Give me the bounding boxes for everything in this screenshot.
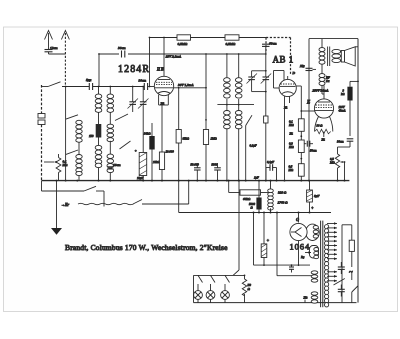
- smoothing electrolytic: [261, 213, 267, 267]
- anode top lead V1: [163, 38, 165, 73]
- wave-change switch S1b: [66, 150, 78, 155]
- svg-text:1284R: 1284R: [118, 64, 150, 75]
- resistor 50 Ohm barretter: [242, 275, 246, 303]
- svg-text:AB 1: AB 1: [273, 55, 294, 65]
- capacitor 50cm coupling: [304, 141, 313, 147]
- svg-text:50cm: 50cm: [310, 149, 317, 153]
- ground lead: [56, 181, 58, 228]
- svg-text:MΩ: MΩ: [288, 145, 294, 149]
- svg-text:Rk: Rk: [289, 132, 294, 136]
- shielded dashed lead to AB1 grid: [266, 38, 291, 76]
- link wire: [217, 104, 254, 106]
- electrolytic 10uF: [139, 153, 147, 181]
- capacitor 30cm (right): [347, 139, 354, 147]
- output box frame: [309, 39, 358, 303]
- mains tapped winding (right of core): [325, 225, 329, 307]
- wire riser x=99: [98, 54, 100, 87]
- svg-text:10.000: 10.000: [166, 150, 175, 154]
- svg-text:MΩ: MΩ: [288, 168, 294, 172]
- voltage taps with arrows: [327, 222, 337, 282]
- heater feed riser: [238, 181, 240, 270]
- HT winding bobbin loops: [313, 226, 318, 239]
- cathode bypass caps: [289, 264, 294, 272]
- HT feed to rectifier: [253, 213, 255, 266]
- IF coil L9: [224, 111, 231, 181]
- top HT bus: [150, 37, 267, 39]
- resistor 5000 Ohm (hatched): [256, 180, 261, 214]
- svg-text:5000: 5000: [212, 163, 219, 167]
- filament center line: [254, 264, 311, 266]
- svg-text:60cm: 60cm: [269, 42, 277, 46]
- svg-text:43mA: 43mA: [339, 109, 346, 113]
- svg-text:30cm: 30cm: [337, 140, 344, 144]
- antenna arrow A2 (dashed down-lead): [61, 31, 69, 87]
- tuning gang loop: [247, 71, 272, 92]
- capacitor 5uu: [89, 83, 92, 90]
- svg-text:250V 54mA: 250V 54mA: [313, 89, 330, 93]
- capacitor 12cm on antenna lead: [45, 50, 66, 55]
- svg-text:Rg: Rg: [300, 255, 305, 259]
- grid loop AB1: [274, 71, 285, 89]
- svg-text:Rk: Rk: [321, 138, 326, 142]
- svg-text:10μF: 10μF: [137, 176, 144, 180]
- svg-text:1μF: 1μF: [254, 176, 259, 180]
- resistor 0,3MOhm (divider mid): [298, 131, 304, 152]
- dial lamp rail bottom: [194, 302, 357, 304]
- svg-text:+: +: [311, 205, 314, 210]
- trimmer capacitor C-t2: [138, 87, 149, 153]
- IF coil L10: [235, 54, 242, 111]
- resistor 1kOhm small: [264, 110, 268, 181]
- svg-text:~: ~: [349, 269, 353, 277]
- svg-text:D: D: [292, 71, 296, 75]
- svg-text:30cm: 30cm: [139, 79, 147, 83]
- bus junction dots: [56, 180, 346, 182]
- resistor R 0,5MOhm (right): [225, 35, 239, 47]
- svg-text:5μμ: 5μμ: [86, 78, 92, 82]
- resistor 0,5MOhm (divider bottom): [298, 153, 304, 181]
- coil L7 (col C lower): [107, 154, 114, 181]
- wire L2 to bus: [78, 176, 80, 181]
- dial lamp rail top: [194, 274, 245, 276]
- mains switch a: [334, 279, 345, 286]
- rectifier tube 1064: [290, 213, 319, 267]
- tube E (output pentode): [314, 85, 333, 118]
- wire riser to wave switch: [65, 87, 67, 181]
- heater return riser: [178, 181, 180, 213]
- resistor (hatched) in col B: [96, 124, 102, 138]
- dial lamp La1: [194, 275, 203, 302]
- svg-text:Dr.: Dr.: [325, 79, 330, 83]
- pins AB1: [285, 96, 290, 106]
- antenna coil L2: [76, 155, 82, 159]
- svg-text:30 Ω: 30 Ω: [317, 124, 324, 128]
- output transformer T1: [319, 39, 341, 66]
- svg-text:1740 Ω: 1740 Ω: [278, 201, 289, 205]
- junction dots grid line: [98, 37, 240, 55]
- tuned coil L5 (col C): [107, 87, 114, 125]
- capacitor 25u: [306, 68, 317, 70]
- aerial socket connector: [38, 114, 45, 125]
- loudspeaker: [340, 47, 358, 66]
- main earth bus: [42, 180, 350, 182]
- trimmer capacitor C-t1: [128, 87, 139, 113]
- ground symbol: [51, 228, 62, 235]
- svg-text:10cm: 10cm: [113, 163, 121, 167]
- svg-text:60kΩ: 60kΩ: [243, 197, 251, 201]
- wire L1-L2: [78, 142, 80, 154]
- cathode network V1 riser: [159, 105, 169, 181]
- anode lead AB1 to divider: [296, 86, 301, 119]
- capacitor 30cm grid of V1: [144, 83, 147, 90]
- wire AVC riser x=149.5: [149, 38, 151, 84]
- svg-text:E: E: [306, 101, 310, 106]
- heater riser right: [277, 213, 312, 276]
- speaker field coil NF Dr: [319, 64, 325, 94]
- svg-text:85kΩ: 85kΩ: [183, 137, 190, 141]
- tuned coil L3 (col B): [95, 87, 102, 125]
- svg-text:→Er: →Er: [61, 202, 69, 207]
- IF coil L8: [224, 54, 231, 111]
- coil L4 (col B lower): [95, 138, 102, 181]
- svg-text:H N: H N: [156, 67, 164, 72]
- mains switch b: [352, 286, 358, 292]
- svg-text:Rk: Rk: [283, 106, 288, 110]
- svg-text:30cm: 30cm: [118, 46, 126, 50]
- mains dropper winding 320/1740: [268, 180, 274, 214]
- svg-text:1MΩ: 1MΩ: [211, 137, 218, 141]
- primary mains winding lower: [311, 292, 318, 303]
- svg-text:Hz: Hz: [303, 296, 309, 300]
- heater winding 4V: [311, 271, 318, 282]
- potentiometer 0,1MOhm (zigzag): [44, 154, 61, 181]
- svg-text:320 Ω: 320 Ω: [278, 191, 287, 195]
- mains-aerial switch line: [42, 181, 105, 207]
- svg-text:150: 150: [89, 134, 94, 138]
- left chassis border (dashed): [41, 85, 43, 181]
- svg-text:10kΩ: 10kΩ: [153, 160, 160, 164]
- grid bus wire y=54: [99, 53, 266, 55]
- resistor 1MOhm: [203, 54, 208, 181]
- switch antenna: [48, 82, 61, 87]
- grid wire to tube E: [301, 110, 314, 112]
- svg-text:1064: 1064: [290, 242, 311, 252]
- capacitor 0,1uF: [266, 164, 277, 180]
- svg-text:Brandt, Columbus 170 W., Wechs: Brandt, Columbus 170 W., Wechselstrom, 2…: [65, 243, 228, 252]
- svg-text:MΩ: MΩ: [288, 123, 294, 127]
- wave-change switch S1a: [66, 115, 78, 119]
- antenna arrow A1: [45, 31, 53, 50]
- tube V1 1284R: [154, 72, 173, 96]
- electrolytic 8uF: [307, 181, 313, 213]
- resistor R 0,5MOhm (left): [177, 35, 191, 47]
- IF coil L11: [235, 111, 242, 181]
- svg-text:50.000: 50.000: [191, 163, 200, 167]
- filament winding bobbin: [310, 246, 319, 259]
- arrow to transformer: [305, 251, 311, 253]
- coil L6 (col C mid): [107, 124, 114, 154]
- switch Er: [133, 200, 142, 205]
- switch S2: [115, 114, 128, 121]
- svg-text:+: +: [267, 238, 270, 243]
- svg-text:30kΩ: 30kΩ: [144, 132, 151, 136]
- cathode pins V1: [159, 95, 169, 105]
- capacitor 50cm in grid bus: [119, 50, 128, 58]
- switch S3: [120, 141, 131, 149]
- cathode return AB1: [284, 109, 286, 181]
- svg-text:MΩ: MΩ: [329, 161, 335, 165]
- svg-text:8μF: 8μF: [314, 194, 320, 198]
- capacitor 60cm: [262, 44, 270, 54]
- dial lamp La2: [206, 275, 215, 302]
- mains caps: [338, 262, 345, 297]
- fuse Si: [342, 225, 354, 267]
- tube AB1: [279, 76, 296, 97]
- switch S4: [246, 115, 252, 125]
- resistor 85kOhm: [176, 88, 181, 181]
- dial lamp La3: [221, 275, 230, 302]
- capacitor 10cm: [107, 167, 114, 169]
- resistor 0,1MOhm (divider top): [298, 119, 304, 132]
- svg-text:25μ: 25μ: [300, 64, 305, 68]
- svg-text:12cm: 12cm: [50, 46, 58, 50]
- power transformer core: [321, 221, 323, 308]
- svg-text:G: G: [296, 217, 299, 222]
- heater return line: [179, 212, 331, 214]
- capacitor 50.000: [194, 163, 201, 181]
- mains selector bar: [341, 225, 343, 303]
- svg-text:MΩ: MΩ: [62, 163, 69, 167]
- resistor 3kOhm (hatched): [347, 81, 359, 137]
- wire antenna input y=86.5: [42, 86, 155, 88]
- capacitor 5000: [214, 163, 221, 181]
- resistor 30kOhm (hatched) col x152: [149, 123, 154, 181]
- anode wire V1 to right: [174, 87, 206, 89]
- cathode resistor 30 Ohm of E: [315, 117, 333, 138]
- antenna coil L1: [76, 120, 82, 124]
- potentiometer 0,5MOhm (tone): [335, 147, 350, 181]
- resistor 60kOhm: [228, 180, 271, 196]
